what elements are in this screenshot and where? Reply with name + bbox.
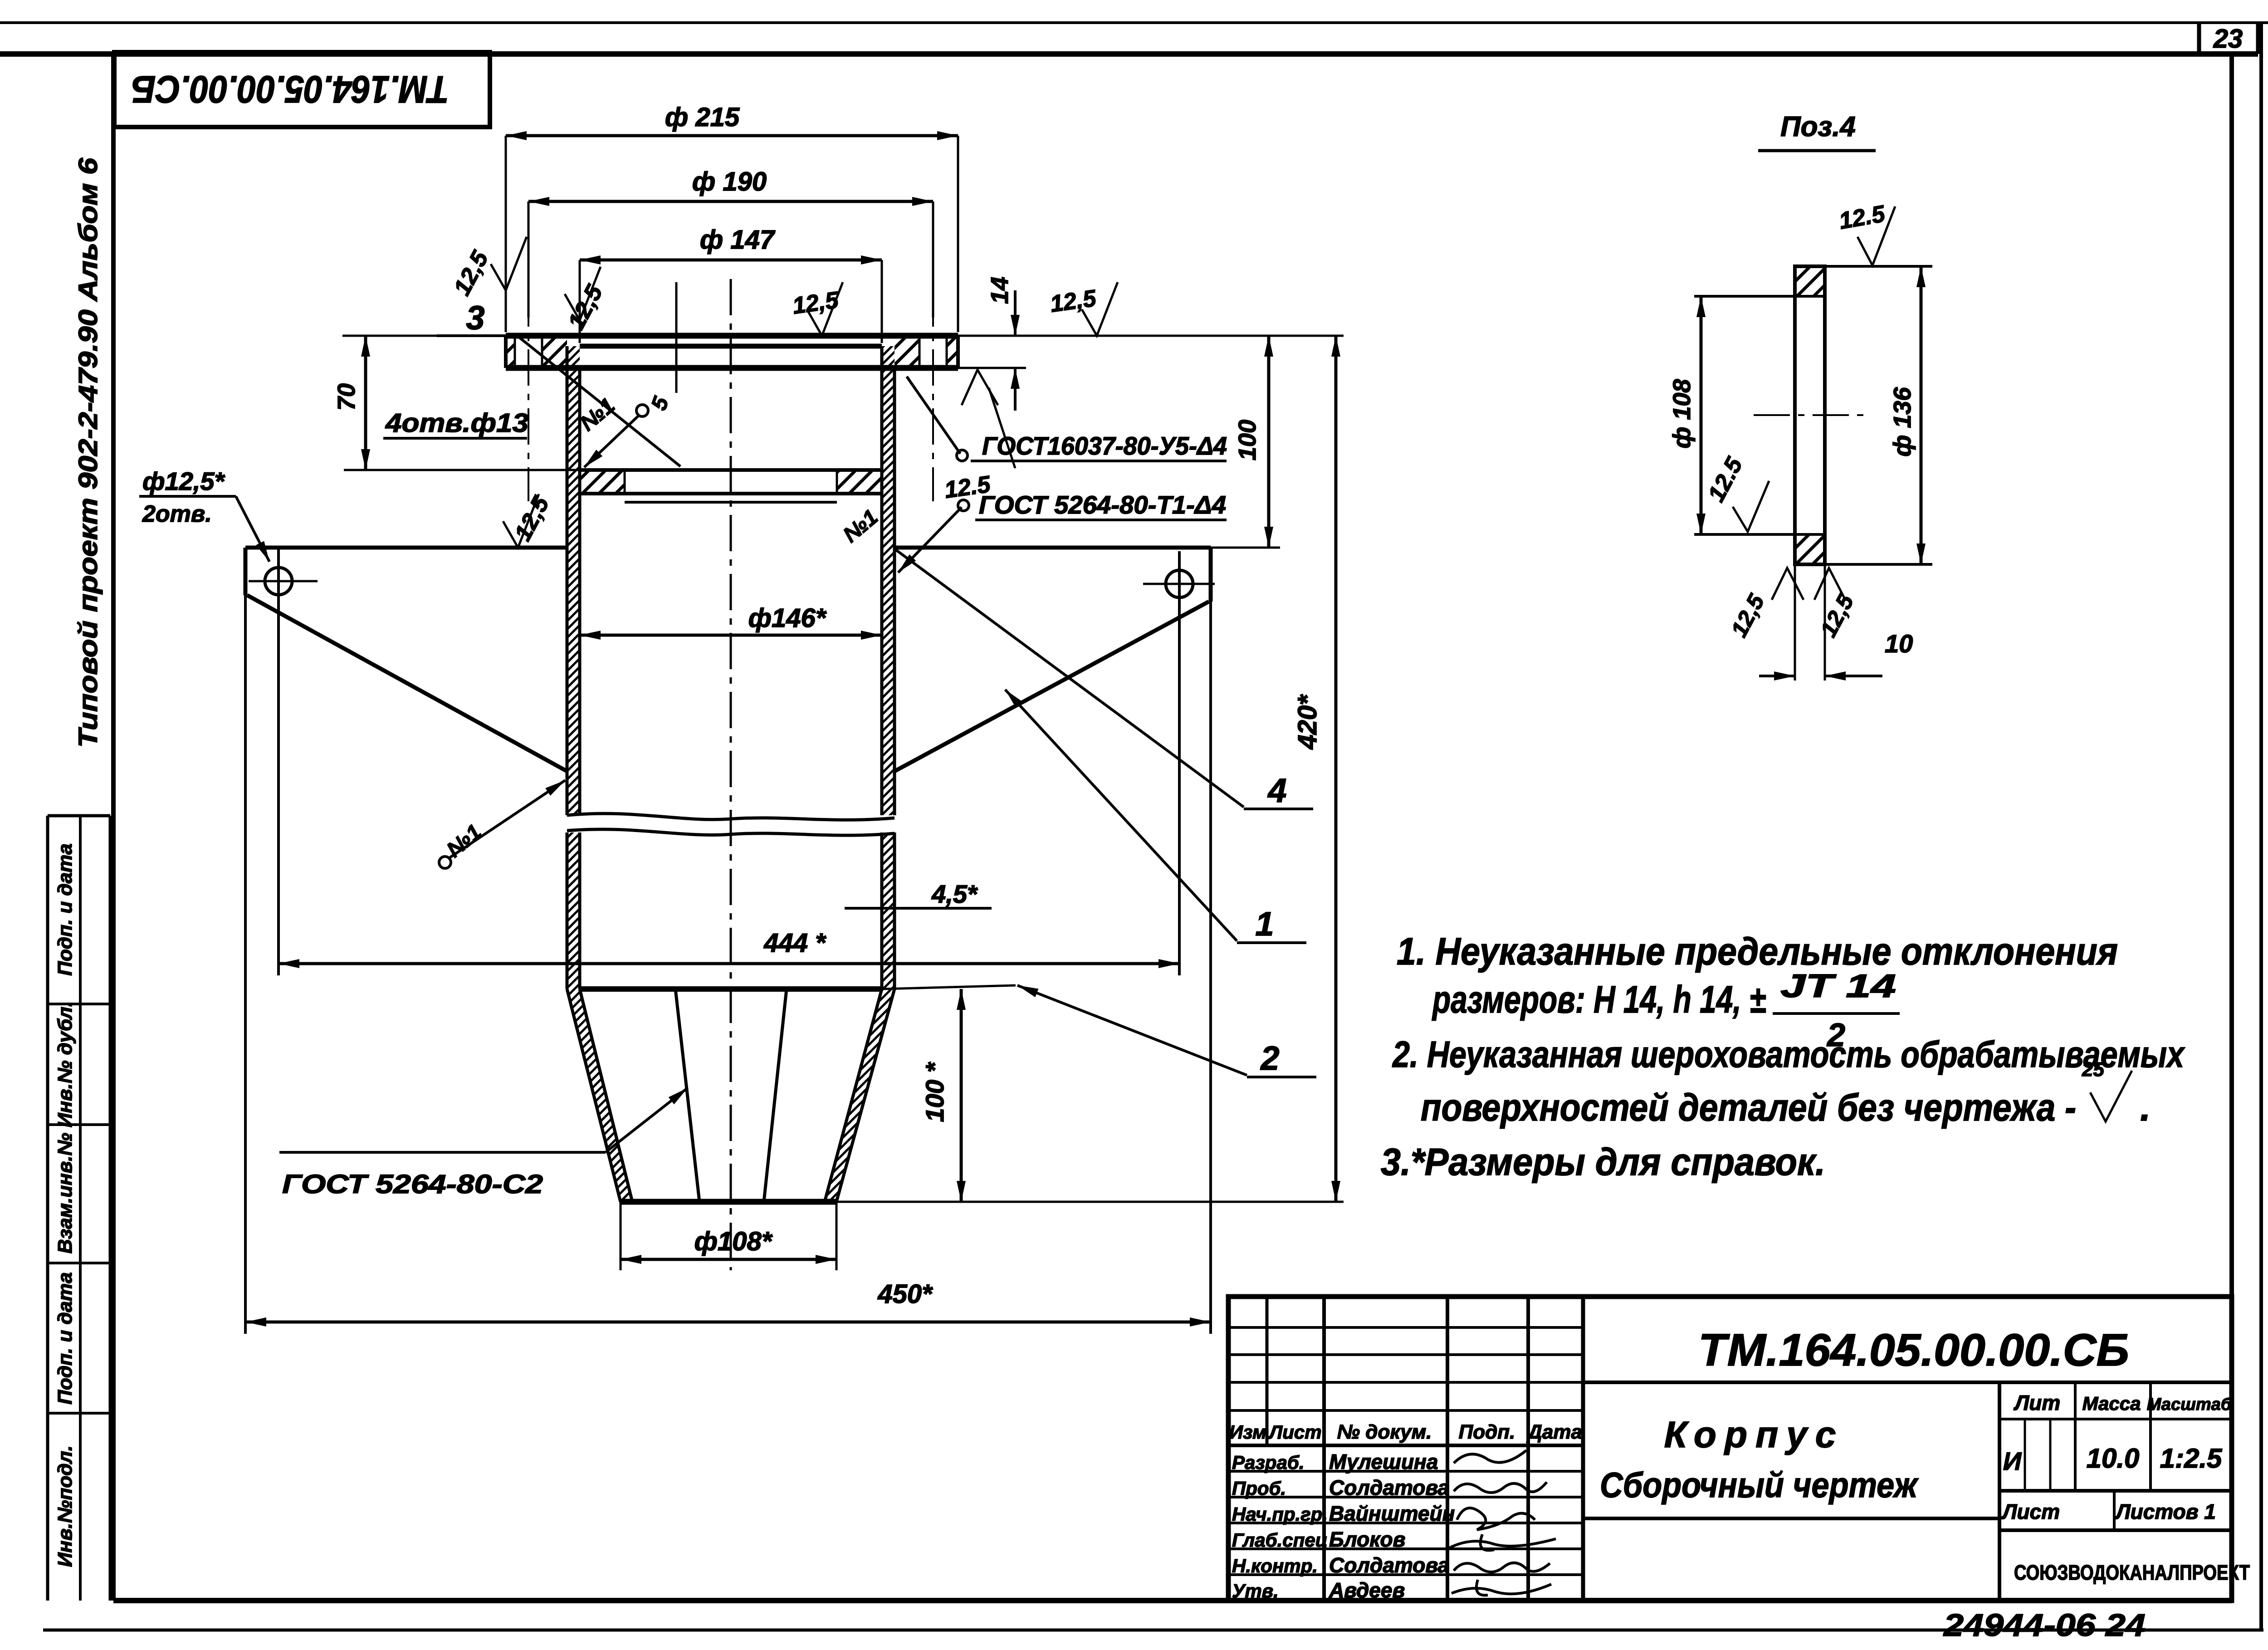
- svg-text:Масштаб: Масштаб: [2147, 1395, 2232, 1414]
- svg-text:Масса: Масса: [2082, 1393, 2141, 1414]
- svg-text:4,5*: 4,5*: [931, 880, 978, 908]
- svg-text:444 *: 444 *: [763, 928, 826, 958]
- svg-text:ф 108: ф 108: [1668, 379, 1696, 449]
- svg-text:ф 215: ф 215: [665, 103, 740, 132]
- svg-text:Утв.: Утв.: [1232, 1580, 1279, 1601]
- svg-text:Блоков: Блоков: [1329, 1528, 1405, 1551]
- svg-text:№ докум.: № докум.: [1337, 1421, 1432, 1443]
- svg-text:23: 23: [2213, 24, 2243, 54]
- svg-text:Подп. и дата: Подп. и дата: [54, 843, 76, 975]
- svg-text:Разраб.: Разраб.: [1232, 1452, 1305, 1473]
- svg-text:4: 4: [1267, 772, 1286, 809]
- svg-text:100: 100: [1234, 420, 1261, 460]
- svg-text:10.0: 10.0: [2087, 1443, 2140, 1474]
- svg-text:420*: 420*: [1293, 694, 1322, 750]
- svg-text:24944-06 24: 24944-06 24: [1943, 1607, 2146, 1643]
- svg-text:ф146*: ф146*: [748, 603, 827, 633]
- svg-text:14: 14: [986, 277, 1013, 304]
- svg-text:10: 10: [1885, 629, 1913, 658]
- svg-text:Солдатова: Солдатова: [1329, 1476, 1449, 1499]
- svg-text:ф 190: ф 190: [692, 167, 767, 196]
- svg-text:1. Неуказанные предельные от: 1. Неуказанные предельные отклонения: [1397, 930, 2118, 973]
- svg-text:СОЮЗВОДОКАНАЛПРОЕКТ: СОЮЗВОДОКАНАЛПРОЕКТ: [2014, 1561, 2250, 1584]
- svg-text:Лист: Лист: [1268, 1421, 1321, 1443]
- svg-text:ф 136: ф 136: [1889, 387, 1916, 457]
- svg-text:Проб.: Проб.: [1232, 1478, 1286, 1499]
- svg-text:ф12,5*: ф12,5*: [142, 467, 225, 495]
- svg-text:И: И: [2003, 1447, 2022, 1475]
- svg-text:Взам.инв.№: Взам.инв.№: [54, 1133, 76, 1253]
- svg-text:ф108*: ф108*: [694, 1227, 773, 1256]
- svg-text:1:2.5: 1:2.5: [2160, 1443, 2223, 1474]
- svg-text:Глаб.спец: Глаб.спец: [1232, 1529, 1328, 1551]
- svg-text:2. Неуказанная шероховатость: 2. Неуказанная шероховатость обрабатывае…: [1392, 1034, 2185, 1075]
- svg-text:Подп.: Подп.: [1459, 1421, 1515, 1443]
- svg-text:Листов 1: Листов 1: [2115, 1500, 2216, 1523]
- svg-text:поверхностей деталей без че: поверхностей деталей без чертежа -: [1421, 1086, 2076, 1129]
- svg-text:Типовой проект 902-2-479.90 А: Типовой проект 902-2-479.90 Альбом 6: [73, 157, 103, 748]
- svg-text:3: 3: [466, 299, 484, 337]
- svg-text:Нач.пр.гр.: Нач.пр.гр.: [1232, 1503, 1328, 1525]
- svg-text:.: .: [2140, 1086, 2151, 1129]
- svg-text:Лист: Лист: [2001, 1500, 2060, 1523]
- svg-text:1: 1: [1255, 905, 1274, 943]
- svg-text:Мулешина: Мулешина: [1329, 1450, 1438, 1474]
- svg-text:Инв.№ дубл.: Инв.№ дубл.: [54, 1001, 76, 1127]
- svg-text:Дата: Дата: [1526, 1421, 1582, 1443]
- svg-text:ТМ.164.05.00.00.СБ: ТМ.164.05.00.00.СБ: [132, 68, 449, 111]
- svg-text:3.*Размеры для справок.: 3.*Размеры для справок.: [1381, 1141, 1825, 1183]
- svg-text:размеров: Н 14, h 14, ±: размеров: Н 14, h 14, ±: [1432, 978, 1766, 1021]
- svg-text:Корпус: Корпус: [1664, 1414, 1844, 1455]
- svg-text:2отв.: 2отв.: [142, 501, 212, 527]
- svg-text:Поз.4: Поз.4: [1780, 111, 1856, 142]
- svg-text:Сборочный чертеж: Сборочный чертеж: [1600, 1465, 1919, 1505]
- svg-text:4отв.ф13: 4отв.ф13: [385, 408, 528, 438]
- svg-text:25: 25: [2082, 1058, 2104, 1081]
- svg-text:100 *: 100 *: [920, 1062, 949, 1122]
- svg-text:ЈТ 14: ЈТ 14: [1780, 968, 1896, 1004]
- svg-text:Авдеев: Авдеев: [1329, 1578, 1405, 1602]
- svg-text:450*: 450*: [877, 1279, 933, 1309]
- svg-text:ГОСТ16037-80-У5-Δ4: ГОСТ16037-80-У5-Δ4: [982, 431, 1227, 460]
- svg-text:ГОСТ 5264-80-С2: ГОСТ 5264-80-С2: [282, 1170, 543, 1199]
- svg-text:Подп. и дата: Подп. и дата: [54, 1272, 76, 1404]
- svg-text:Вайнштейн: Вайнштейн: [1329, 1502, 1455, 1525]
- svg-text:ф 147: ф 147: [700, 225, 776, 255]
- svg-text:2: 2: [1260, 1039, 1279, 1077]
- svg-text:ГОСТ 5264-80-Т1-Δ4: ГОСТ 5264-80-Т1-Δ4: [979, 490, 1226, 519]
- svg-text:70: 70: [333, 383, 360, 411]
- svg-text:Солдатова: Солдатова: [1329, 1553, 1449, 1577]
- svg-text:Изм: Изм: [1229, 1421, 1266, 1443]
- svg-text:Н.контр.: Н.контр.: [1232, 1555, 1318, 1577]
- svg-text:Лит: Лит: [2014, 1391, 2061, 1415]
- svg-text:ТМ.164.05.00.00.СБ: ТМ.164.05.00.00.СБ: [1698, 1325, 2129, 1376]
- svg-text:Инв.№подл.: Инв.№подл.: [54, 1445, 76, 1567]
